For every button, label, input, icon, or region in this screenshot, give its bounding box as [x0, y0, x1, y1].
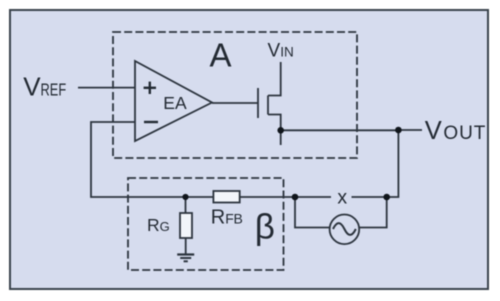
- svg-text:EA: EA: [163, 93, 187, 113]
- svg-text:β: β: [255, 208, 275, 247]
- svg-text:VIN: VIN: [268, 41, 294, 62]
- svg-text:x: x: [337, 187, 347, 209]
- svg-text:RFB: RFB: [211, 207, 243, 229]
- svg-text:A: A: [210, 37, 232, 74]
